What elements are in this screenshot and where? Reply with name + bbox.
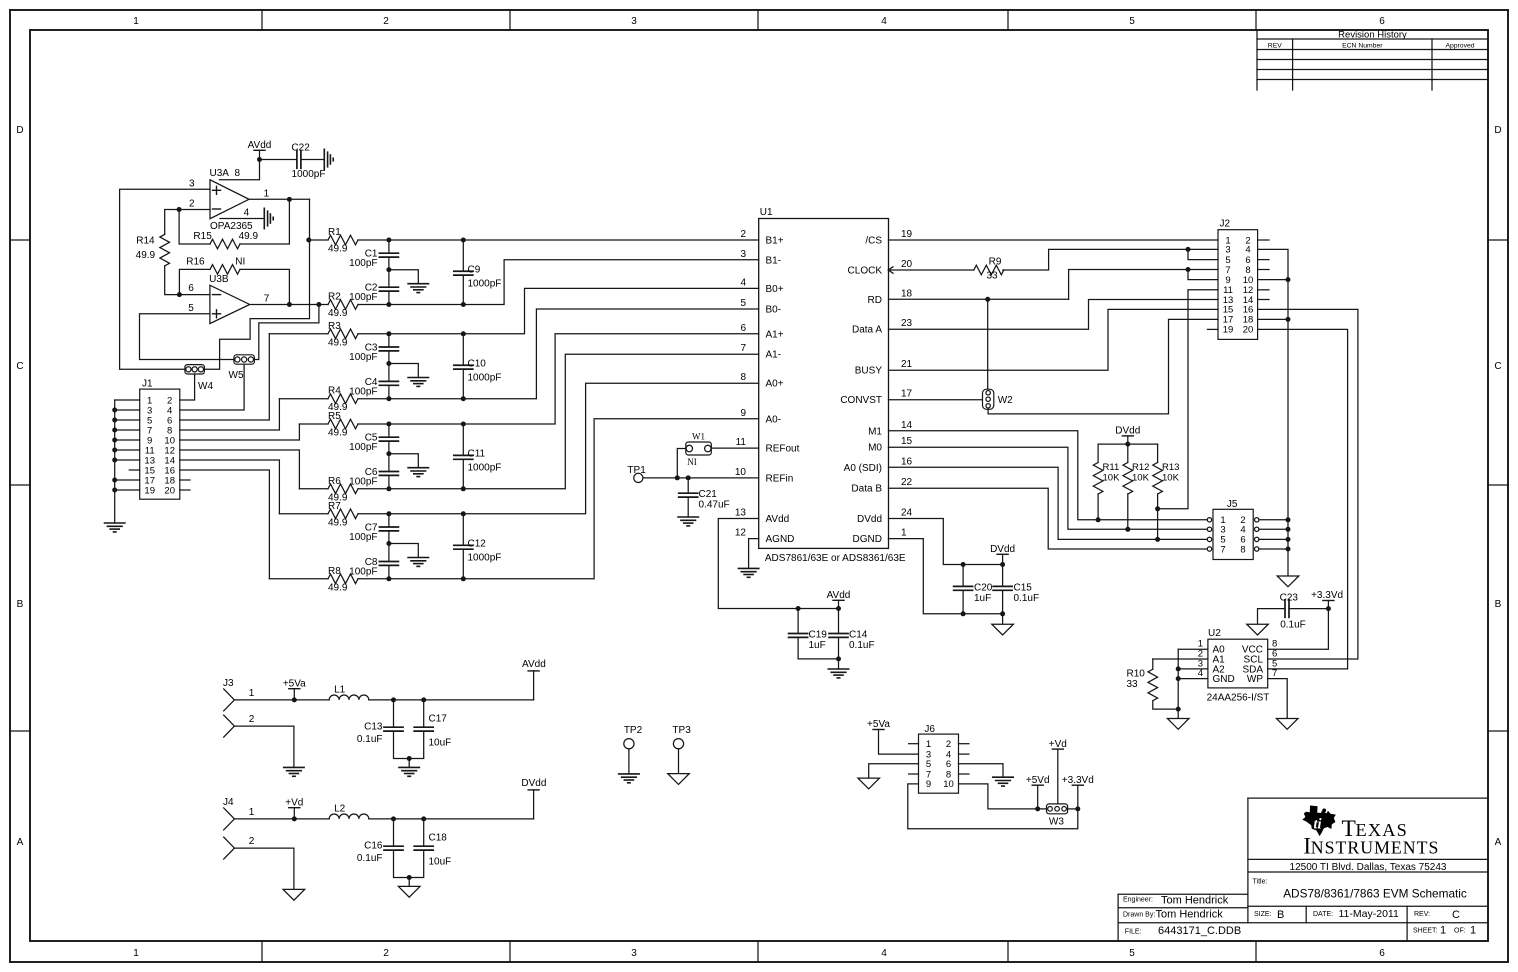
svg-text:21: 21 xyxy=(901,359,913,370)
svg-text:18: 18 xyxy=(901,288,913,299)
svg-text:17: 17 xyxy=(901,389,913,400)
svg-text:C20: C20 xyxy=(974,583,993,594)
svg-text:A1-: A1- xyxy=(766,350,782,361)
svg-text:1000pF: 1000pF xyxy=(292,169,326,180)
svg-text:L2: L2 xyxy=(334,803,346,814)
svg-text:0.1uF: 0.1uF xyxy=(357,734,383,745)
svg-text:AVdd: AVdd xyxy=(248,140,272,151)
svg-text:2: 2 xyxy=(740,229,746,240)
svg-text:20: 20 xyxy=(1243,325,1254,336)
svg-text:J5: J5 xyxy=(1227,499,1238,510)
svg-text:+Vd: +Vd xyxy=(285,798,303,809)
svg-text:R10: R10 xyxy=(1127,669,1146,680)
svg-text:4: 4 xyxy=(881,16,887,27)
svg-text:1000pF: 1000pF xyxy=(468,462,502,473)
svg-text:8: 8 xyxy=(235,168,241,179)
svg-text:1000pF: 1000pF xyxy=(468,278,502,289)
svg-text:GND: GND xyxy=(1213,674,1235,685)
svg-text:C18: C18 xyxy=(429,833,448,844)
svg-text:D: D xyxy=(1494,125,1501,136)
svg-text:20: 20 xyxy=(901,259,913,270)
svg-text:A1+: A1+ xyxy=(766,329,784,340)
svg-text:W3: W3 xyxy=(1049,817,1064,828)
svg-text:C21: C21 xyxy=(699,489,718,500)
svg-text:7: 7 xyxy=(264,293,270,304)
svg-text:13: 13 xyxy=(735,508,747,519)
svg-text:NSTRUMENTS: NSTRUMENTS xyxy=(1311,837,1440,857)
svg-text:Revision History: Revision History xyxy=(1338,30,1407,41)
svg-text:/CS: /CS xyxy=(865,236,882,247)
svg-text:ti: ti xyxy=(1313,817,1321,833)
svg-text:ECN Number: ECN Number xyxy=(1342,43,1383,50)
svg-text:TP3: TP3 xyxy=(672,725,691,736)
svg-text:B0-: B0- xyxy=(766,305,782,316)
svg-text:C12: C12 xyxy=(468,538,487,549)
svg-text:NI: NI xyxy=(235,256,245,267)
svg-text:6: 6 xyxy=(1379,948,1385,959)
svg-text:J6: J6 xyxy=(924,724,935,735)
svg-text:0.47uF: 0.47uF xyxy=(699,500,730,511)
svg-text:REFin: REFin xyxy=(766,473,794,484)
svg-text:2: 2 xyxy=(383,948,389,959)
svg-text:100pF: 100pF xyxy=(349,352,377,363)
svg-text:B1-: B1- xyxy=(766,255,782,266)
svg-text:D: D xyxy=(16,125,23,136)
svg-text:Engineer:: Engineer: xyxy=(1123,897,1153,904)
svg-text:DVdd: DVdd xyxy=(521,778,546,789)
svg-text:11-May-2011: 11-May-2011 xyxy=(1339,908,1399,920)
svg-text:9: 9 xyxy=(926,779,931,790)
svg-text:Data A: Data A xyxy=(852,325,882,336)
svg-text:10: 10 xyxy=(735,467,747,478)
svg-text:WP: WP xyxy=(1247,674,1263,685)
svg-text:C: C xyxy=(1494,361,1501,372)
svg-text:4: 4 xyxy=(244,208,250,219)
svg-text:0.1uF: 0.1uF xyxy=(1014,593,1040,604)
svg-text:B: B xyxy=(17,599,24,610)
svg-text:R1: R1 xyxy=(328,227,341,238)
svg-text:L1: L1 xyxy=(334,684,346,695)
svg-text:J3: J3 xyxy=(223,678,234,689)
svg-text:1: 1 xyxy=(264,188,270,199)
svg-text:W1: W1 xyxy=(692,432,705,442)
svg-text:7: 7 xyxy=(1220,544,1225,555)
svg-text:9: 9 xyxy=(740,408,746,419)
svg-text:Approved: Approved xyxy=(1445,43,1474,50)
svg-text:C: C xyxy=(16,361,23,372)
svg-text:TP1: TP1 xyxy=(627,465,646,476)
svg-text:3: 3 xyxy=(740,249,746,260)
svg-text:C: C xyxy=(1452,909,1460,921)
svg-text:0.1uF: 0.1uF xyxy=(357,853,383,864)
svg-text:49.9: 49.9 xyxy=(239,231,259,242)
svg-text:6443171_C.DDB: 6443171_C.DDB xyxy=(1158,925,1241,937)
svg-text:C22: C22 xyxy=(291,143,310,154)
svg-text:1uF: 1uF xyxy=(974,593,991,604)
svg-text:5: 5 xyxy=(1129,948,1135,959)
svg-text:1000pF: 1000pF xyxy=(468,372,502,383)
svg-text:100pF: 100pF xyxy=(349,386,377,397)
svg-text:5: 5 xyxy=(740,298,746,309)
svg-text:33: 33 xyxy=(1127,679,1139,690)
svg-text:2: 2 xyxy=(383,16,389,27)
svg-text:A: A xyxy=(1495,837,1502,848)
svg-text:19: 19 xyxy=(144,485,155,496)
svg-text:100pF: 100pF xyxy=(349,258,377,269)
svg-text:R12: R12 xyxy=(1132,462,1149,473)
svg-text:19: 19 xyxy=(1223,325,1234,336)
svg-text:Data B: Data B xyxy=(851,484,882,495)
svg-text:49.9: 49.9 xyxy=(328,582,348,593)
svg-text:100pF: 100pF xyxy=(349,532,377,543)
svg-text:M0: M0 xyxy=(868,443,882,454)
svg-text:19: 19 xyxy=(901,229,913,240)
svg-text:C17: C17 xyxy=(429,714,448,725)
svg-text:7: 7 xyxy=(1272,668,1277,679)
svg-text:ADS7861/63E or ADS8361/63E: ADS7861/63E or ADS8361/63E xyxy=(765,553,906,564)
svg-text:B0+: B0+ xyxy=(766,284,784,295)
svg-text:NI: NI xyxy=(687,457,697,467)
svg-text:Tom Hendrick: Tom Hendrick xyxy=(1156,909,1224,921)
svg-text:10uF: 10uF xyxy=(429,738,452,749)
svg-text:15: 15 xyxy=(901,436,913,447)
svg-text:C16: C16 xyxy=(364,841,383,852)
svg-text:23: 23 xyxy=(901,318,913,329)
svg-text:100pF: 100pF xyxy=(349,442,377,453)
svg-text:R4: R4 xyxy=(328,386,341,397)
svg-text:8: 8 xyxy=(1240,544,1245,555)
svg-text:12: 12 xyxy=(735,528,747,539)
svg-text:CONVST: CONVST xyxy=(840,395,882,406)
svg-text:+5Vd: +5Vd xyxy=(1026,775,1050,786)
svg-text:49.9: 49.9 xyxy=(328,244,348,255)
svg-text:5: 5 xyxy=(1129,16,1135,27)
svg-text:+3.3Vd: +3.3Vd xyxy=(1311,590,1343,601)
svg-text:Drawn By:: Drawn By: xyxy=(1123,912,1155,919)
svg-text:RD: RD xyxy=(868,295,882,306)
svg-text:6: 6 xyxy=(188,283,194,294)
svg-text:C9: C9 xyxy=(468,264,481,275)
svg-text:10K: 10K xyxy=(1162,473,1180,484)
svg-text:REV:: REV: xyxy=(1414,911,1430,918)
svg-text:100pF: 100pF xyxy=(349,477,377,488)
svg-text:U3B: U3B xyxy=(209,274,229,285)
svg-text:0.1uF: 0.1uF xyxy=(1280,620,1306,631)
svg-text:OF:: OF: xyxy=(1454,928,1466,935)
svg-text:10: 10 xyxy=(943,779,954,790)
svg-text:4: 4 xyxy=(1198,668,1203,679)
svg-text:B: B xyxy=(1277,909,1284,921)
svg-text:C10: C10 xyxy=(468,358,487,369)
svg-text:U2: U2 xyxy=(1208,628,1221,639)
svg-text:4: 4 xyxy=(881,948,887,959)
svg-text:12500 TI Blvd. Dallas, Texas: 12500 TI Blvd. Dallas, Texas 75243 xyxy=(1290,862,1447,873)
svg-text:Tom Hendrick: Tom Hendrick xyxy=(1161,895,1229,907)
svg-text:+3.3Vd: +3.3Vd xyxy=(1062,775,1094,786)
svg-text:R9: R9 xyxy=(989,257,1002,268)
svg-text:1: 1 xyxy=(249,807,255,818)
svg-text:J1: J1 xyxy=(142,379,153,390)
svg-text:33: 33 xyxy=(986,271,998,282)
svg-text:R8: R8 xyxy=(328,566,341,577)
svg-text:100pF: 100pF xyxy=(349,292,377,303)
svg-text:CLOCK: CLOCK xyxy=(848,266,883,277)
svg-text:REV: REV xyxy=(1268,43,1282,50)
svg-text:R13: R13 xyxy=(1162,462,1179,473)
svg-text:C14: C14 xyxy=(849,630,868,641)
svg-text:J2: J2 xyxy=(1220,219,1231,230)
svg-text:14: 14 xyxy=(901,420,913,431)
svg-text:16: 16 xyxy=(901,456,913,467)
svg-text:1: 1 xyxy=(1440,925,1446,937)
svg-text:1: 1 xyxy=(133,948,139,959)
svg-text:22: 22 xyxy=(901,477,913,488)
svg-text:B: B xyxy=(1495,599,1502,610)
svg-text:+5Va: +5Va xyxy=(867,719,890,730)
svg-text:10K: 10K xyxy=(1103,473,1121,484)
svg-text:R3: R3 xyxy=(328,321,341,332)
svg-text:1: 1 xyxy=(1470,925,1476,937)
svg-text:2: 2 xyxy=(946,739,951,750)
svg-text:W4: W4 xyxy=(198,381,213,392)
svg-text:7: 7 xyxy=(740,343,746,354)
svg-text:Title:: Title: xyxy=(1253,879,1268,886)
svg-text:8: 8 xyxy=(740,372,746,383)
svg-text:0.1uF: 0.1uF xyxy=(849,640,875,651)
svg-text:1000pF: 1000pF xyxy=(468,552,502,563)
svg-text:M1: M1 xyxy=(868,426,882,437)
svg-text:4: 4 xyxy=(740,277,746,288)
svg-text:W2: W2 xyxy=(998,395,1013,406)
svg-text:REFout: REFout xyxy=(766,444,800,455)
svg-text:49.9: 49.9 xyxy=(328,337,348,348)
svg-text:A0+: A0+ xyxy=(766,379,784,390)
svg-text:49.9: 49.9 xyxy=(328,308,348,319)
svg-text:11: 11 xyxy=(736,437,747,448)
svg-text:10K: 10K xyxy=(1132,473,1150,484)
svg-text:DVdd: DVdd xyxy=(990,544,1015,555)
svg-text:SHEET:: SHEET: xyxy=(1413,928,1438,935)
svg-text:R5: R5 xyxy=(328,411,341,422)
svg-text:R6: R6 xyxy=(328,476,341,487)
svg-text:R7: R7 xyxy=(328,501,341,512)
svg-text:1uF: 1uF xyxy=(809,640,826,651)
svg-text:+5Va: +5Va xyxy=(283,679,306,690)
svg-text:R15: R15 xyxy=(193,231,212,242)
svg-text:20: 20 xyxy=(164,485,175,496)
svg-text:DATE:: DATE: xyxy=(1313,911,1333,918)
svg-text:24AA256-I/ST: 24AA256-I/ST xyxy=(1207,693,1270,704)
svg-text:A: A xyxy=(17,837,24,848)
svg-text:BUSY: BUSY xyxy=(855,366,883,377)
svg-text:+Vd: +Vd xyxy=(1049,739,1067,750)
svg-text:3: 3 xyxy=(631,948,637,959)
svg-text:DVdd: DVdd xyxy=(1115,426,1140,437)
svg-text:C11: C11 xyxy=(468,448,486,459)
svg-text:W5: W5 xyxy=(229,370,244,381)
svg-text:100pF: 100pF xyxy=(349,567,377,578)
svg-text:SIZE:: SIZE: xyxy=(1254,911,1272,918)
svg-text:A0 (SDI): A0 (SDI) xyxy=(844,463,882,474)
svg-text:J4: J4 xyxy=(223,797,234,808)
svg-text:FILE:: FILE: xyxy=(1125,929,1142,936)
svg-text:3: 3 xyxy=(631,16,637,27)
svg-text:B1+: B1+ xyxy=(766,236,784,247)
svg-text:ADS78/8361/7863 EVM Schematic: ADS78/8361/7863 EVM Schematic xyxy=(1283,887,1467,901)
svg-text:49.9: 49.9 xyxy=(136,250,156,261)
svg-text:C15: C15 xyxy=(1014,583,1033,594)
svg-text:R16: R16 xyxy=(186,256,205,267)
svg-text:R14: R14 xyxy=(136,236,155,247)
svg-text:AGND: AGND xyxy=(766,534,795,545)
svg-text:24: 24 xyxy=(901,508,913,519)
svg-text:C19: C19 xyxy=(809,630,828,641)
svg-text:A0-: A0- xyxy=(766,414,782,425)
svg-text:49.9: 49.9 xyxy=(328,517,348,528)
svg-text:C13: C13 xyxy=(364,722,383,733)
svg-text:R2: R2 xyxy=(328,292,341,303)
svg-text:AVdd: AVdd xyxy=(522,659,546,670)
svg-text:AVdd: AVdd xyxy=(766,514,790,525)
svg-text:1: 1 xyxy=(133,16,139,27)
svg-text:1: 1 xyxy=(926,739,931,750)
svg-text:6: 6 xyxy=(1379,16,1385,27)
svg-text:10uF: 10uF xyxy=(429,857,452,868)
svg-text:49.9: 49.9 xyxy=(328,428,348,439)
svg-text:1: 1 xyxy=(901,528,907,539)
svg-text:AVdd: AVdd xyxy=(827,590,851,601)
svg-text:U3A: U3A xyxy=(210,168,230,179)
svg-text:TP2: TP2 xyxy=(624,725,643,736)
svg-text:3: 3 xyxy=(189,179,195,190)
svg-text:2: 2 xyxy=(249,714,255,725)
svg-text:6: 6 xyxy=(740,323,746,334)
svg-text:U1: U1 xyxy=(760,207,773,218)
svg-text:5: 5 xyxy=(188,303,194,314)
svg-text:2: 2 xyxy=(249,836,255,847)
svg-text:1: 1 xyxy=(249,688,255,699)
svg-text:C23: C23 xyxy=(1280,593,1299,604)
svg-text:DVdd: DVdd xyxy=(857,514,882,525)
svg-text:R11: R11 xyxy=(1103,462,1120,473)
svg-text:2: 2 xyxy=(189,199,195,210)
svg-text:DGND: DGND xyxy=(853,534,882,545)
